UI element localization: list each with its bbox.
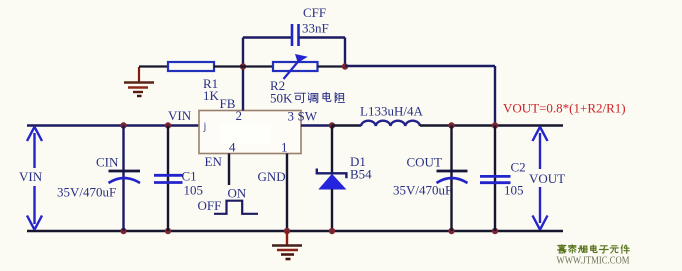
svg-text:B54: B54 (350, 167, 372, 182)
svg-text:35V/470uF: 35V/470uF (393, 183, 452, 198)
junction dot FB node (240, 63, 246, 69)
ground symbol main (272, 231, 302, 259)
svg-text:105: 105 (504, 183, 524, 198)
wire R2 left lead (243, 65, 273, 67)
svg-text:CIN: CIN (96, 155, 119, 170)
svg-text:L133uH/4A: L133uH/4A (360, 104, 423, 119)
svg-text:GND: GND (258, 169, 286, 184)
wire bottom ground rail (27, 230, 563, 232)
node VOUT port arrow (533, 127, 548, 230)
svg-text:FB: FB (220, 96, 236, 111)
svg-text:EN: EN (205, 154, 223, 169)
junction dot C2 top (492, 122, 498, 128)
svg-text:VOUT=0.8*(1+R2/R1): VOUT=0.8*(1+R2/R1) (503, 101, 626, 116)
svg-text:ON: ON (228, 186, 247, 201)
svg-text:WWW.JTMIC.COM: WWW.JTMIC.COM (557, 255, 630, 267)
svg-text:C1: C1 (182, 169, 197, 184)
svg-text:1K: 1K (203, 88, 220, 103)
wire SW node to inductor (332, 124, 361, 126)
svg-text:VOUT: VOUT (529, 171, 565, 186)
svg-text:SW: SW (298, 109, 318, 124)
wire COUT branch (450, 126, 452, 232)
svg-text:4: 4 (229, 140, 236, 155)
junction dot GND node (284, 228, 290, 234)
svg-text:33nF: 33nF (302, 21, 329, 36)
junction dot R2 right node (342, 63, 348, 69)
wire CFF right (299, 36, 346, 38)
wire top rail from VIN port to U1 VIN pin (27, 124, 199, 126)
wire CIN branch (122, 126, 124, 232)
inductor L1 (361, 121, 420, 126)
junction dot CIN top (120, 122, 126, 128)
capacitor CFF plates (292, 24, 299, 46)
junction dot SW node (329, 122, 335, 128)
svg-text:50K: 50K (270, 91, 293, 106)
svg-text:OFF: OFF (198, 198, 222, 213)
EN enable pulse waveform (214, 201, 258, 214)
ground symbol at R1 (124, 67, 154, 96)
resistor R2 potentiometer body (273, 62, 318, 71)
diode D1 (317, 126, 347, 232)
wire EN pin lead (228, 154, 230, 186)
node VIN port arrow (27, 127, 42, 230)
watermark vendor name (558, 245, 566, 253)
IC U1 erased watermark blotch (220, 124, 270, 144)
junction dot COUT bottom (448, 228, 454, 234)
wire CFF left (243, 36, 292, 38)
wire C2 branch (494, 126, 496, 232)
capacitor C2 symbol (480, 176, 511, 182)
wire R1 left lead (139, 65, 168, 67)
resistor R1 (168, 62, 214, 71)
wire inductor to VOUT rail (420, 124, 563, 126)
wire SW pin lead (301, 124, 332, 126)
svg-text:VIN: VIN (168, 108, 192, 123)
R2 wiper arrow (284, 54, 308, 79)
wire R1 right lead (214, 65, 243, 67)
junction dot C1 top (165, 122, 171, 128)
svg-text:2: 2 (236, 108, 243, 123)
capacitor CIN symbol (109, 171, 141, 183)
junction dot C1 bottom (165, 228, 171, 234)
wire FB net vertical (CFF left / FB pin) (242, 38, 244, 111)
svg-text:35V/470uF: 35V/470uF (57, 185, 116, 200)
svg-text:j: j (203, 122, 207, 133)
junction dot D1 bottom (329, 228, 335, 234)
IC U1 body (199, 111, 301, 154)
svg-text:COUT: COUT (407, 155, 442, 170)
svg-text:VIN: VIN (19, 169, 43, 184)
junction dot C2 bottom (492, 228, 498, 234)
wire VOUT node drop (494, 66, 496, 126)
wire C1 branch (167, 126, 169, 232)
junction dot CIN bottom (120, 228, 126, 234)
svg-text:105: 105 (184, 183, 204, 198)
wire R2/CFF right vertical to output net (344, 38, 346, 67)
svg-text:C2: C2 (511, 160, 526, 175)
junction dot COUT top (448, 122, 454, 128)
capacitor COUT symbol (437, 171, 468, 183)
wire R2 right lead (318, 65, 346, 67)
wire feedback top run to VOUT node (345, 65, 495, 67)
capacitor C1 symbol (154, 175, 183, 182)
svg-text:1: 1 (281, 140, 288, 155)
svg-text:3: 3 (288, 109, 295, 124)
wire GND pin lead (286, 154, 288, 232)
svg-text:CFF: CFF (303, 5, 326, 20)
